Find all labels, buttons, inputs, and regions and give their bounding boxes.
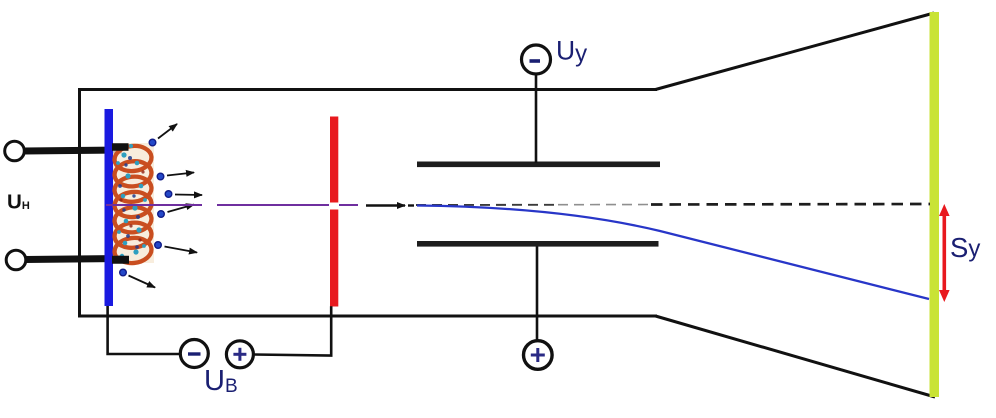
arrow from e6 [129,276,156,288]
plus terminal below bottom plate [524,341,553,370]
svg-text:UB: UB [204,365,238,397]
terminal bottom (heater) [6,250,26,270]
heater wire top [24,150,122,151]
arrow from e4 [168,205,195,213]
beam line purple segment 3 [339,204,358,206]
electron e1 [149,139,156,146]
electron e6 [120,269,127,276]
Uy source terminal (minus) [522,45,551,74]
screen (fluorescent) [930,12,940,397]
electron e3 [165,191,172,198]
tube envelope: top wall [78,88,657,91]
wire bottom plate to plus terminal [536,247,539,341]
heater coil [113,143,154,265]
anode (red bar) top part [330,117,338,203]
svg-text:Sy: Sy [950,232,980,263]
beam line purple segment 2 [217,204,329,206]
svg-text:UH: UH [7,191,30,214]
wire Uy source to top plate [535,74,538,163]
sy deflection arrow (red, double headed) [939,204,950,302]
axis dashed line (light section) [416,204,555,206]
axis dashed line (faint section) [558,204,650,206]
terminal top (heater) [5,141,25,161]
cathode (blue bar) [105,109,114,306]
deflection plate top [417,162,660,168]
UB minus terminal [180,340,208,368]
deflected beam (blue) [417,206,929,300]
electron e4 [158,211,165,218]
deflection plate bottom [417,241,659,247]
beam dash after arrow [408,204,414,206]
arrow from e2 [167,173,194,176]
UB plus terminal [226,341,253,368]
heater wire bottom [25,259,122,260]
electron e2 [157,173,164,180]
tube envelope: flare top [656,13,935,90]
arrow from e3 [175,194,202,197]
wire cathode to UB minus [108,306,180,354]
beam arrow (black) [366,204,405,206]
tube envelope: left wall [78,88,81,318]
tube envelope: bottom wall [78,315,657,318]
electron e5 [155,242,162,249]
axis dashed line (bold section) [651,203,930,206]
heater stub top inside [112,143,129,151]
beam line purple segment 1 [106,204,202,206]
svg-text:Uy: Uy [556,36,587,68]
arrow from e5 [165,247,198,253]
anode (red bar) bottom part [330,210,338,307]
arrow from e1 [158,124,177,139]
tube envelope: flare bottom [656,316,936,397]
heater stub bottom inside [112,256,129,264]
wire UB plus to anode [254,306,332,355]
